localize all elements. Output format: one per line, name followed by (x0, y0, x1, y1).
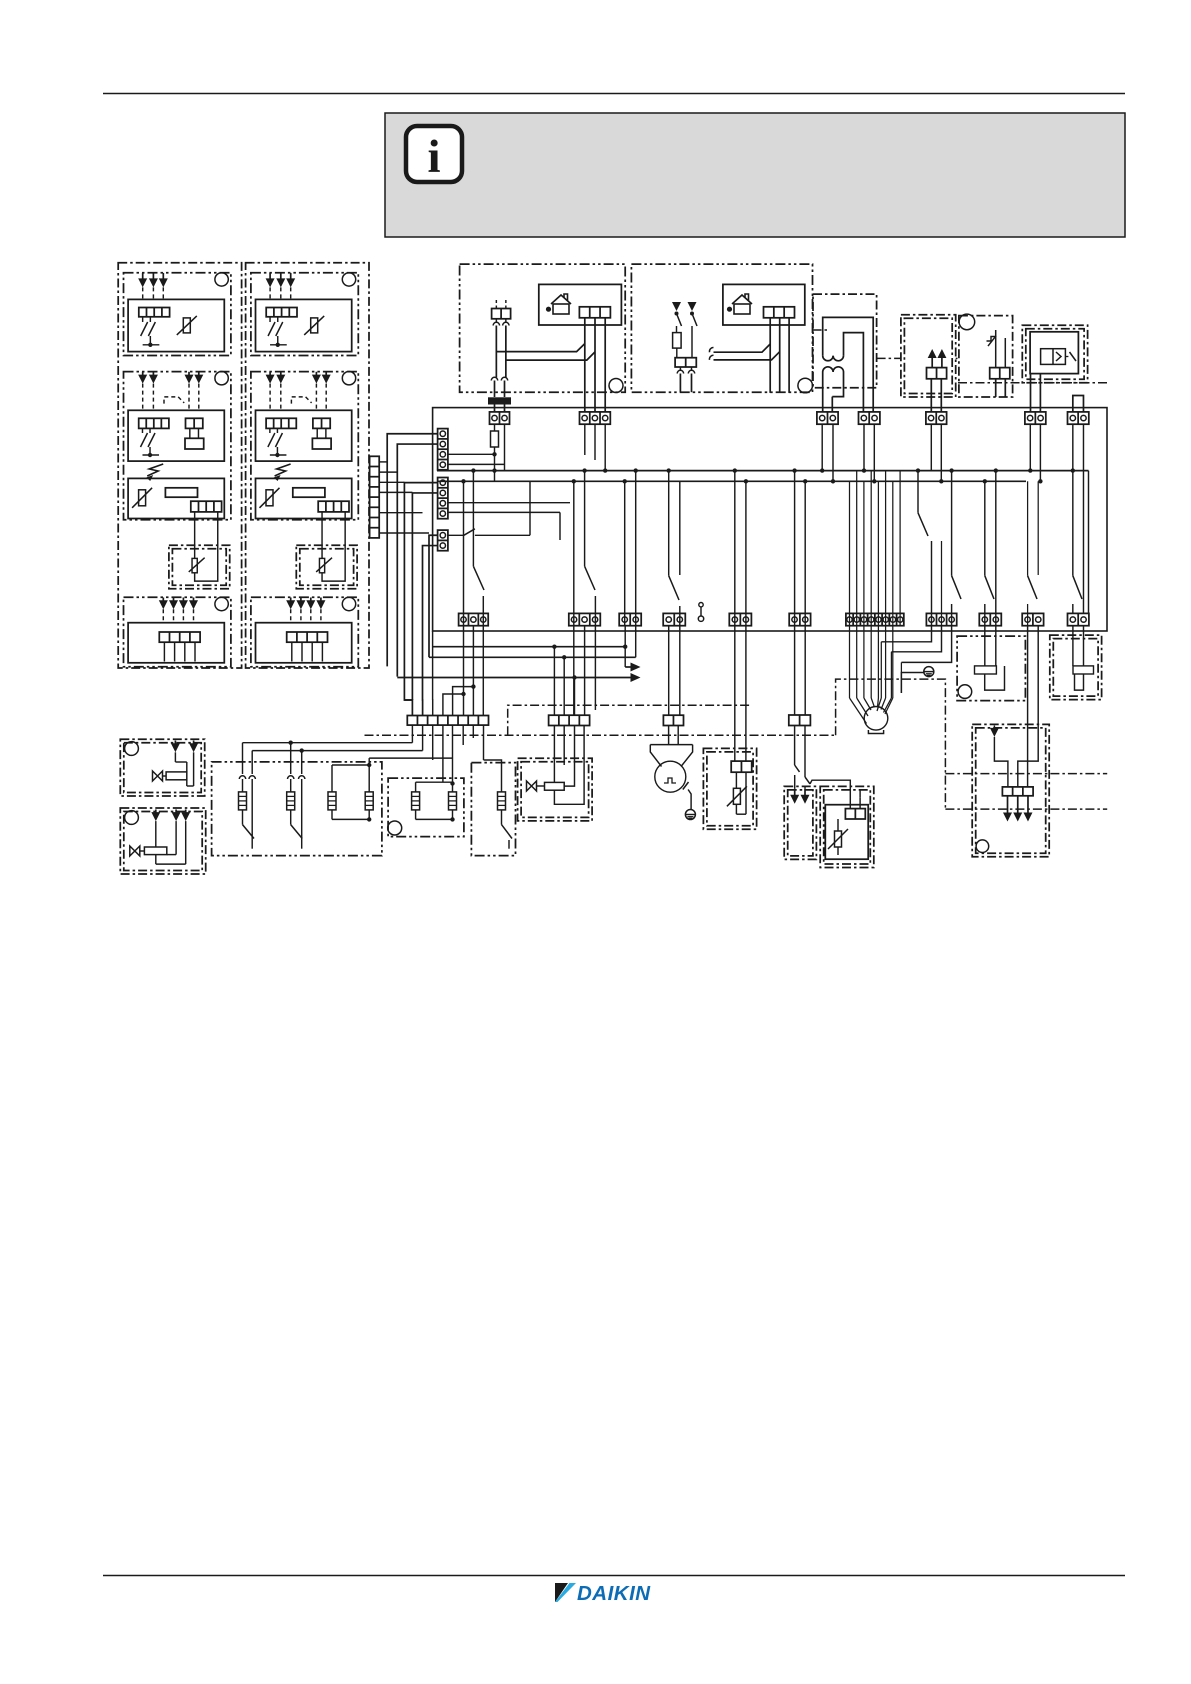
jumper above X7 (1073, 396, 1084, 412)
B1 wires (930, 379, 932, 412)
remote controller A1 thermistor (183, 318, 190, 333)
option D1 pcb (128, 623, 224, 663)
X6 drops (1029, 424, 1031, 470)
stack1 wire b (397, 444, 437, 677)
PCB fuse (494, 424, 496, 431)
remote controller A1 pcb (128, 299, 224, 351)
controller B2 terminal block 2 (313, 418, 330, 428)
junction bar 1 (407, 716, 488, 726)
PCB bottom terminal Y3 (619, 613, 641, 625)
PCB connector stack 2 (438, 478, 448, 519)
drop to Y2 a (573, 481, 575, 626)
T1 filter wires (494, 405, 496, 412)
option box S2 (820, 786, 874, 867)
R1 relay coil (984, 626, 986, 666)
DAIKIN logo (555, 1582, 651, 1605)
T1 wire left (495, 326, 497, 378)
T2 breaker contacts (676, 302, 678, 303)
PCB bottom terminal Y7 (789, 613, 810, 625)
pump glyph (664, 778, 676, 783)
F1 feed wire 2 (252, 750, 422, 752)
controller B1 pcb lower (128, 478, 224, 518)
B2 field wires (995, 379, 997, 397)
PCB bottom terminal Y2 (569, 613, 601, 625)
Y9 motor links (881, 626, 931, 642)
X7-Y12 through wire b (1082, 424, 1084, 613)
controller B2 relay coil (316, 428, 318, 438)
drop to Y10 switch (984, 481, 986, 575)
T1 house pcb (539, 284, 622, 325)
controller B2 pcb lower (256, 478, 352, 518)
motor link drops (880, 642, 882, 698)
junction bar 3 (663, 715, 683, 725)
field option box F2 (388, 778, 464, 837)
field box T2 callout circle (798, 378, 813, 393)
drop to Y11 switch (1027, 481, 1029, 575)
R3 output arrows (1007, 796, 1009, 814)
valve box V3 (518, 758, 593, 821)
B2 connector block (990, 368, 1010, 379)
B1 demand arrows (931, 357, 933, 368)
Y7 drops to bar4 (794, 626, 796, 715)
B3 wires (1030, 374, 1032, 412)
R3 terminal block (1002, 787, 1033, 796)
S2 thermistor (835, 831, 842, 847)
Y4 drops to bar3 (668, 626, 670, 715)
controller B2 switch contacts (269, 428, 271, 433)
boundary lower right (945, 808, 1107, 810)
remote sensor C1 thermistor (194, 512, 196, 559)
R3 input arrow (993, 726, 995, 728)
drop to Y4 switch (668, 471, 670, 576)
PCB bus B (437, 480, 1026, 482)
fan motor (864, 707, 888, 731)
relay box R1 (957, 636, 1025, 701)
V2 supply arrows (155, 810, 157, 814)
interface box R3 (972, 724, 1049, 856)
controller B1 thermistor (139, 490, 146, 506)
F2 callout circle (388, 821, 402, 835)
V2 valve (130, 846, 140, 856)
drop to Y3 a (624, 481, 626, 626)
PCB bottom terminal Y8 (846, 613, 904, 625)
option D2 pcb (256, 623, 352, 663)
remote sensor C2 box (296, 545, 357, 589)
controller B1 wireless link arrow (147, 464, 163, 476)
option D1 supply arrows (162, 598, 164, 602)
junction bar 2 (549, 715, 590, 725)
T1 field hooks (491, 377, 497, 380)
callout circle near B2 (959, 314, 975, 330)
controller B2 callout circle (342, 372, 355, 385)
T2 house icon (734, 304, 750, 314)
controller B1 box (124, 372, 231, 520)
remote controller A1 callout circle (215, 273, 228, 286)
option D2 terminal block (287, 632, 328, 642)
stack3 wire b (423, 546, 438, 716)
bar1 c6 drop (462, 725, 464, 745)
S2 inner pcb (825, 805, 868, 860)
expansion valve box V1 (120, 739, 204, 796)
T2 house wires (769, 318, 771, 393)
V1 callout circle (125, 742, 139, 756)
controller B2 dashed link (291, 397, 305, 404)
T4 feed wires (734, 626, 736, 761)
S2 connector block (845, 809, 865, 819)
bar1 cell4 step (443, 694, 464, 716)
PCB left edge drop (432, 631, 434, 700)
Y1 drops to bar1 (463, 626, 465, 716)
PCB bottom terminal Y1 (459, 613, 489, 625)
T1 interconnect wire 2 (506, 352, 595, 360)
controller B2 terminal block 3 (318, 501, 349, 512)
user interface column 2 enclosure (246, 263, 369, 668)
PCB bottom terminal Y6 (729, 613, 751, 625)
controller B1 dashed link (164, 397, 178, 404)
X5 drops (930, 424, 932, 470)
top rule (103, 93, 1125, 95)
transformer enclosure (813, 294, 877, 388)
controller B1 terminal block 3 (191, 501, 222, 512)
remote sensor C1 box (169, 545, 230, 589)
remote controller A2 switch contacts (269, 317, 271, 322)
option box B3 enclosure (1022, 325, 1087, 383)
boundary line below B3 (958, 382, 1107, 384)
pump ground (685, 810, 695, 820)
F2 feed a (442, 725, 444, 782)
controller B2 wireless link arrow (275, 464, 291, 476)
option box B2 enclosure (959, 316, 1013, 397)
field option box F3 (471, 763, 515, 856)
controller B1 relay coil (189, 428, 191, 438)
S1 wires and arrow a (794, 726, 796, 766)
PCB top terminal X2 (580, 412, 611, 424)
F2 sensor loop (415, 782, 417, 792)
bar2 feed a (553, 647, 555, 716)
drop to Y10 b (995, 471, 997, 626)
boundary main (365, 734, 836, 736)
svg-text:i: i (427, 131, 440, 183)
solenoid valve box V2 (120, 808, 205, 874)
remote controller A2 terminal block (266, 308, 297, 317)
T2 interconnect wire 2 (714, 352, 780, 360)
F1 sensor loop (331, 765, 333, 792)
option D1 wires (163, 642, 165, 661)
F1 load pair 1 (239, 776, 245, 779)
remote controller A2 box (251, 273, 358, 356)
bar1 cell5 step (453, 687, 474, 716)
fan motor wires (849, 626, 851, 698)
remote controller A2 thermistor (311, 318, 318, 333)
PCB top terminal X1 (490, 412, 510, 424)
controller B1 component (165, 488, 197, 497)
controller B2 terminal block 1 (266, 418, 296, 428)
X7-Y12 through wire a (1072, 424, 1074, 576)
remote sensor C2 thermistor (321, 512, 323, 559)
drop to Y1 a (463, 481, 465, 626)
F1 load pair 2 (288, 776, 294, 779)
motor ground (924, 667, 934, 677)
V2 callout circle (125, 811, 139, 825)
B3 inner pcb (1030, 332, 1078, 374)
external connector bar (370, 456, 380, 538)
field option box F1 (212, 762, 382, 856)
PCB top terminal X7 (1068, 412, 1089, 424)
controller B1 terminal block 1 (139, 418, 169, 428)
main PCB outline (433, 408, 1107, 631)
S1 arrow b (804, 786, 806, 788)
V1 supply arrows (174, 741, 176, 745)
controller B1 pcb upper (128, 410, 224, 461)
PCB bottom terminal Y4 (663, 613, 685, 625)
bus below 1 (433, 646, 626, 648)
remote controller A2 pcb (256, 299, 352, 351)
remote controller A1 box (124, 273, 231, 356)
PCB top terminal X3 (817, 412, 838, 424)
stack1 stub c (448, 453, 495, 455)
T2 supply block (675, 358, 696, 367)
B2 thermal protector (995, 330, 997, 368)
R3 callout circle (976, 840, 989, 853)
remote controller A1 supply arrows (142, 273, 144, 280)
PCB connector stack 1 (438, 429, 448, 470)
boundary right riser (836, 679, 946, 809)
stack3 wire a (429, 535, 438, 657)
bar1 c7 drop (472, 725, 474, 738)
field box T1 callout circle (609, 379, 623, 393)
ferrite filter (488, 397, 511, 404)
pump earth contact (683, 782, 689, 790)
R3 feed wires (1027, 626, 1029, 787)
bar1 c3 drop (432, 725, 434, 760)
PCB bottom terminal Y12 (1068, 613, 1089, 625)
PCB top terminal X6 (1025, 412, 1046, 424)
B3 flow switch (1041, 349, 1066, 365)
bus A end drop (1088, 471, 1090, 613)
T1 house terminal block (579, 307, 610, 318)
controller B2 box (251, 372, 358, 520)
user interface column 1 enclosure (118, 263, 241, 668)
option D1 box (124, 597, 231, 667)
F1 loop feed (369, 757, 452, 759)
T1 interconnect wire 1 (496, 344, 584, 352)
stack2 stub c (448, 502, 570, 504)
remote controller A1 switch contacts (142, 317, 144, 322)
T2 interconnect wire 1 (714, 344, 771, 352)
Y3 drop b (635, 626, 637, 657)
signal arrow 2 (397, 677, 631, 679)
S2 feed wires (810, 780, 850, 808)
signal arrow 1 (624, 626, 626, 667)
stack1 wire a (387, 434, 437, 667)
PCB top terminal X5 (926, 412, 947, 424)
boundary line near transformer (877, 357, 901, 359)
pump motor (655, 761, 686, 792)
boundary upper right (945, 773, 1107, 775)
T1 house wires (584, 318, 586, 412)
PCB lone terminal (698, 616, 703, 621)
option D1 callout circle (215, 597, 228, 610)
T2 supply hooks (677, 370, 683, 373)
controller B1 supply arrows (142, 372, 144, 376)
T2 house pcb (723, 284, 805, 325)
controller B2 pcb upper (256, 410, 352, 461)
T1 connector block (492, 309, 511, 319)
F2 feed b (452, 725, 454, 783)
boundary stub T2 right (813, 329, 831, 331)
option box S1 (784, 786, 816, 859)
T1 house icon (553, 304, 569, 314)
T1 house dot (546, 307, 551, 312)
drop to Y9 b (941, 541, 943, 626)
option D2 supply arrows (290, 598, 292, 602)
relay box R2 (1050, 635, 1102, 700)
footer rule (103, 1575, 1125, 1577)
drop to Y3 b (635, 471, 637, 626)
fan motor base (868, 730, 883, 734)
bus below 2 (429, 656, 636, 658)
bar2 feed c (574, 678, 576, 716)
R1 callout circle (958, 685, 972, 699)
T4 connector block (731, 761, 752, 772)
controller B1 switch contacts (141, 428, 143, 433)
PCB bottom terminal Y11 (1022, 613, 1043, 625)
pump feed (668, 726, 670, 745)
transformer secondary winding (822, 372, 824, 412)
controller B2 thermistor (266, 490, 273, 506)
controller B1 terminal block 2 (186, 418, 203, 428)
stack2 wire b (412, 493, 437, 700)
remote controller A1 terminal block (139, 308, 170, 317)
PCB connector stack 3 (438, 530, 448, 551)
V1 valve (153, 771, 163, 781)
drop to Y2 switch (584, 471, 586, 567)
mid switch (917, 471, 919, 513)
X3 drops (821, 424, 823, 470)
option D2 box (251, 597, 358, 667)
stack1 stub d (448, 463, 505, 465)
drop to Y11 b (1037, 481, 1039, 575)
T2 house dot (727, 307, 732, 312)
boundary jog (508, 705, 751, 735)
V3 valve circuit (527, 781, 537, 791)
PCB bus A (437, 470, 1089, 472)
drop to Y7 b (804, 481, 806, 626)
Y2 drops to bar2 (573, 626, 575, 715)
drop to Y9 switch (951, 471, 953, 576)
drop to Y4 b (679, 481, 681, 575)
X4 drops (863, 424, 865, 470)
X2 drops (584, 424, 586, 455)
option box B1 enclosure (901, 315, 956, 397)
controller B2 supply arrows (269, 372, 271, 376)
drop to Y6 a (734, 471, 736, 626)
stack3 internal contact (448, 534, 464, 536)
field box T1 enclosure (460, 264, 626, 392)
junction bar 4 (789, 715, 811, 726)
drop to Y1 switch (472, 471, 474, 567)
svg-text:DAIKIN: DAIKIN (577, 1582, 651, 1605)
bar2 feed b (563, 657, 565, 715)
T2 house terminal block (764, 307, 795, 318)
option D1 terminal block (159, 632, 200, 642)
remote controller A2 callout circle (342, 273, 355, 286)
field box T2 enclosure (631, 264, 812, 392)
T2 fuse (673, 333, 682, 349)
remote controller A2 supply arrows (269, 273, 271, 280)
stack2 stub d (448, 511, 560, 513)
external bar stubs (379, 461, 387, 463)
R2 relay coil (1072, 626, 1074, 666)
X1 drop b (504, 424, 506, 470)
drop to Y6 b (745, 481, 747, 626)
PCB bottom terminal Y10 (979, 613, 1001, 625)
option D2 callout circle (342, 597, 355, 610)
PCB top terminal X4 (859, 412, 880, 424)
info icon (406, 126, 462, 182)
PCB bottom terminal Y9 (926, 613, 956, 625)
F1 feed wire 1 (243, 742, 413, 744)
controller B2 component (293, 488, 325, 497)
T1 connector hooks (493, 322, 499, 325)
info note box (385, 113, 1125, 237)
T4 thermistor (735, 772, 737, 788)
T2 cable sockets (709, 347, 713, 359)
B1 connector block (927, 368, 947, 379)
F3 fuse and contact (483, 725, 485, 760)
drop to Y7 a (794, 471, 796, 626)
sensor box T4 (703, 748, 756, 829)
drops to Y8 (849, 481, 851, 626)
controller B1 callout circle (215, 372, 228, 385)
bar1 top jogs (404, 699, 412, 701)
T1 wire right (505, 326, 507, 378)
option D2 wires (291, 642, 293, 661)
transformer primary winding (823, 317, 874, 412)
stack2 wire a (404, 483, 437, 716)
